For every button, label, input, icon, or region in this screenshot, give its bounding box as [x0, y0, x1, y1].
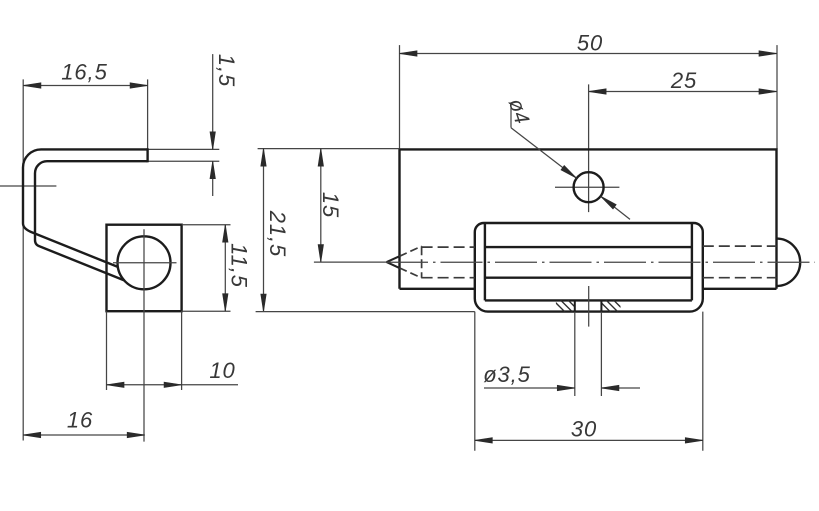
svg-text:50: 50 — [577, 31, 603, 56]
hole circle ø4 — [574, 172, 604, 202]
hole axis below barrel — [588, 286, 590, 327]
hole wall left (ø3,5) — [574, 300, 576, 311]
pin cone upper hidden — [399, 246, 421, 256]
arrow 30 right — [685, 438, 703, 443]
arrow 10 left — [107, 382, 125, 387]
arrow 21,5 down — [261, 294, 266, 312]
extension line right of ø3,5 — [600, 312, 602, 396]
extension line right of 50/25 — [776, 45, 778, 149]
pin head arc — [777, 239, 801, 286]
dimension line 1,5 upper — [212, 54, 214, 149]
svg-text:16: 16 — [67, 408, 93, 433]
dimension line 16 — [23, 434, 145, 436]
dimension line 25 — [589, 91, 777, 93]
svg-text:16,5: 16,5 — [61, 60, 107, 85]
svg-text:25: 25 — [670, 68, 697, 93]
arrow 16 left — [23, 432, 41, 437]
pin axis dash-dot — [386, 261, 815, 263]
leader diagonal upper (ø4) — [511, 128, 577, 179]
extension line left of 50 — [399, 45, 401, 149]
arrow 1,5 up — [210, 161, 215, 179]
hatch right band — [597, 298, 628, 314]
part outer profile — [23, 149, 148, 267]
svg-text:1,5: 1,5 — [214, 54, 239, 87]
pin hidden bottom left — [422, 277, 475, 279]
dimension line 15 — [320, 149, 322, 263]
pin cone tip solid — [387, 256, 401, 269]
arrow 25 left — [589, 89, 607, 94]
extension line top (15 / 21,5) — [258, 148, 400, 150]
arrow 50 left — [400, 51, 418, 56]
arrow 15 up — [318, 149, 323, 167]
dimension line 10 — [107, 384, 239, 386]
arrow 30 left — [475, 438, 493, 443]
extension line right of 10 — [181, 311, 183, 390]
dimension line ø3,5 left — [484, 387, 575, 389]
arrow ø4 lower — [601, 196, 617, 209]
pin cone base hidden — [421, 246, 423, 278]
dimension line ø3,5 right — [601, 387, 640, 389]
hole horizontal centerline — [555, 186, 619, 188]
extension line left of ø3,5 — [574, 312, 576, 396]
dimension line 11,5 — [224, 225, 226, 312]
extension line right of 16,5 — [147, 79, 149, 161]
arrow 21,5 up — [261, 149, 266, 167]
pin hidden bottom right — [703, 277, 777, 279]
dimension line 50 — [400, 53, 777, 55]
leader vertical segment (ø4) — [510, 102, 512, 128]
part inner profile — [35, 161, 148, 280]
arrow ø3,5 right-pointing — [557, 385, 575, 390]
svg-text:30: 30 — [571, 417, 597, 442]
arrow 16 right — [127, 432, 145, 437]
extension line bottom of 15 — [314, 261, 387, 263]
extension line bottom of 21,5 — [256, 311, 475, 313]
pin hidden top right — [703, 245, 777, 247]
pin hidden top left — [422, 246, 475, 248]
barrel inner edges — [485, 223, 692, 300]
arrow ø3,5 left-pointing — [601, 385, 619, 390]
plate outline — [400, 149, 777, 288]
extension line left (16,5 / 16) — [22, 79, 24, 440]
arrow 11,5 down — [223, 294, 228, 312]
leader diagonal lower (ø4) — [601, 196, 630, 219]
pin circle — [118, 236, 171, 289]
svg-text:15: 15 — [318, 192, 343, 218]
dimension line 1,5 lower — [212, 161, 214, 196]
barrel outline — [475, 223, 703, 312]
axis line of left part — [0, 185, 56, 187]
arrow 16,5 left — [23, 83, 41, 88]
arrow 25 right — [759, 89, 777, 94]
arrow 16,5 right — [130, 83, 148, 88]
extension line left of 10 — [106, 311, 108, 390]
arrow 50 right — [759, 51, 777, 56]
svg-text:ø4: ø4 — [504, 96, 534, 127]
pin cone lower hidden — [399, 268, 421, 278]
arrow 15 down — [318, 245, 323, 263]
svg-text:21,5: 21,5 — [265, 210, 290, 257]
extension line bottom of 1,5 — [148, 160, 220, 162]
arrow 1,5 down — [210, 132, 215, 150]
dimension line 16,5 — [23, 85, 147, 87]
arrow ø4 upper — [561, 166, 577, 179]
hole wall right (ø3,5) — [600, 300, 602, 311]
dimension line 30 — [475, 439, 703, 441]
circle vertical centerline — [143, 229, 145, 441]
hole vertical centerline — [588, 84, 590, 212]
svg-text:11,5: 11,5 — [227, 243, 252, 288]
extension line bottom of 11,5 — [182, 310, 231, 312]
svg-text:10: 10 — [209, 358, 235, 383]
extension line left of 30 — [474, 312, 476, 451]
arrow 10 right — [164, 382, 182, 387]
circle horizontal centerline — [113, 262, 177, 264]
pin visible lines in barrel — [485, 247, 692, 278]
square block — [107, 225, 182, 312]
extension line top of 1,5 — [148, 148, 220, 150]
strip end cap — [146, 148, 148, 162]
svg-text:ø3,5: ø3,5 — [483, 362, 531, 387]
extension line top of 11,5 — [182, 224, 231, 226]
dimension line 21,5 — [263, 149, 265, 312]
hatch left band — [551, 298, 582, 314]
arrow 11,5 up — [223, 225, 228, 243]
extension line right of 30 — [702, 312, 704, 451]
